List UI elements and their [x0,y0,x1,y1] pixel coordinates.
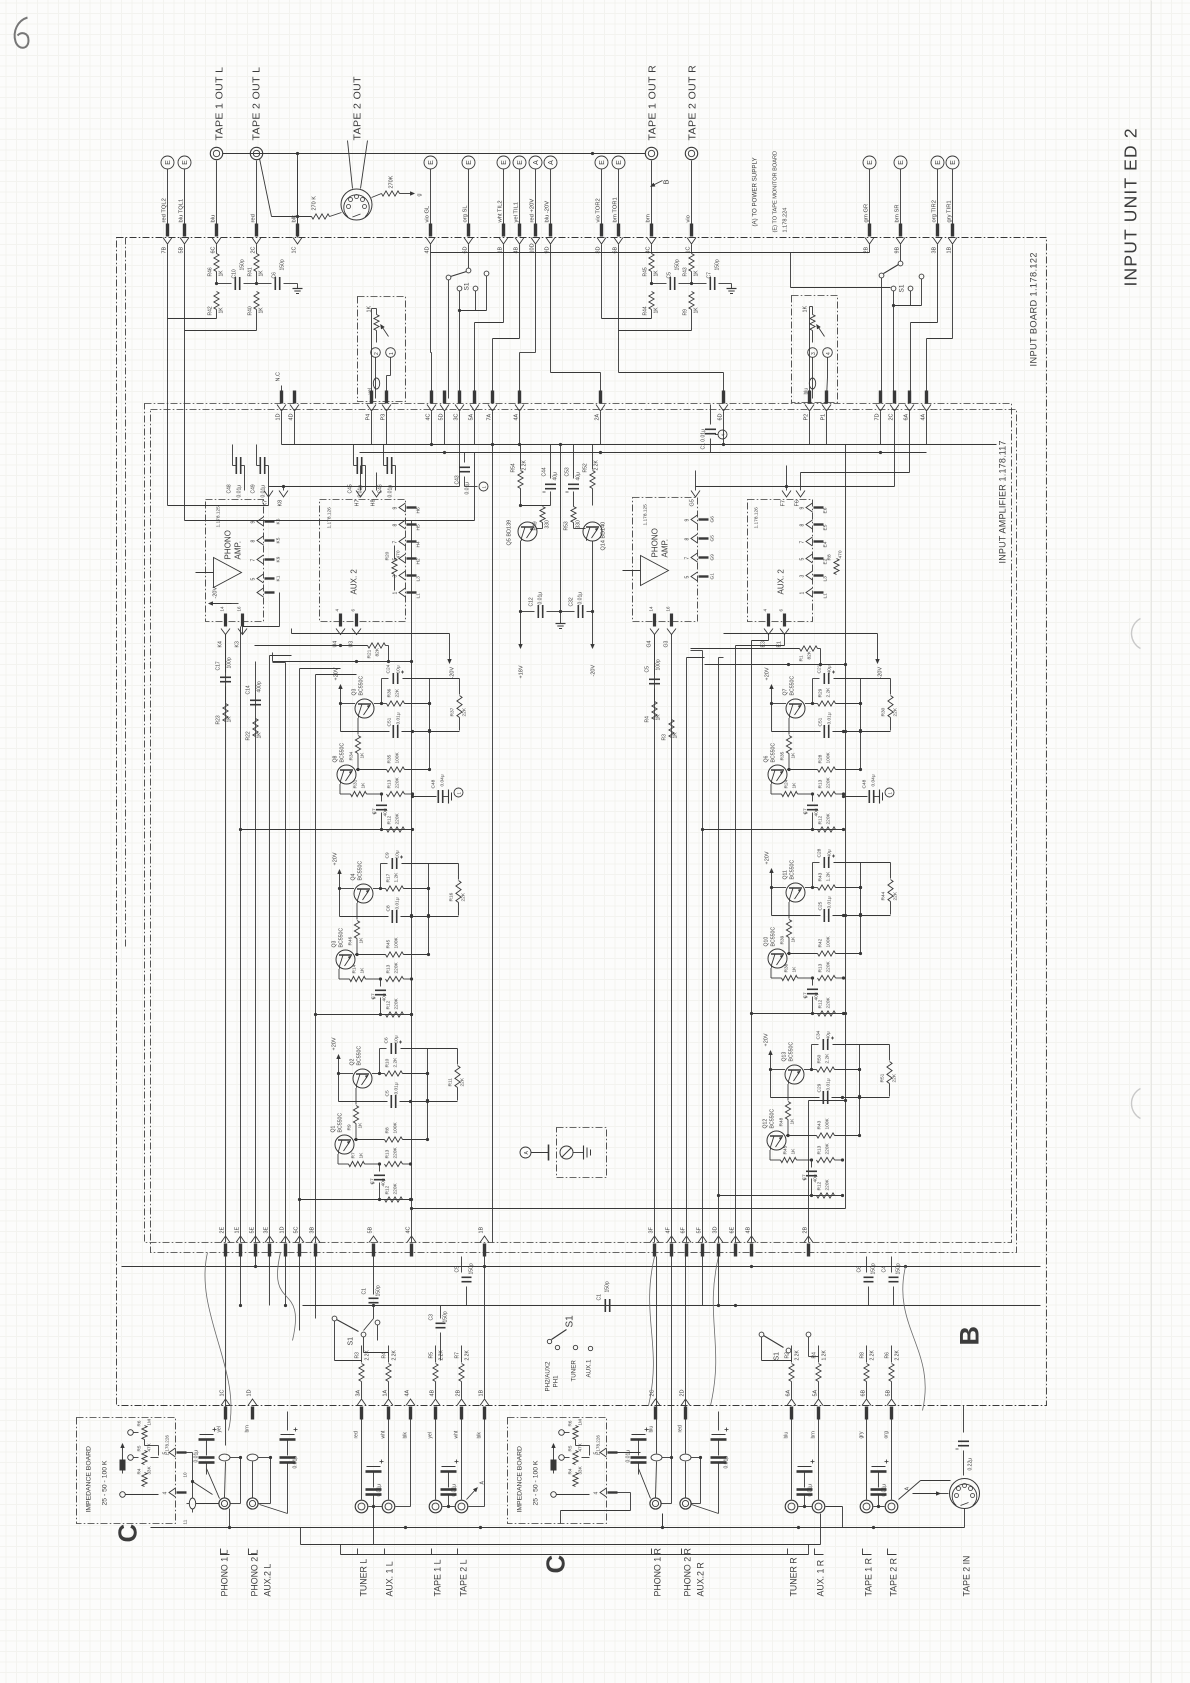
wire 7B left leg [168,319,269,506]
svg-text:org: org [884,1431,890,1438]
svg-text:1: 1 [800,592,806,595]
svg-text:7: 7 [251,559,257,562]
svg-text:red: red [251,214,257,222]
wire mid bus y645 right [691,646,821,665]
pin 1D amplifier bottom edge [280,1226,291,1256]
svg-text:red +20V: red +20V [530,199,536,223]
svg-text:B: B [955,1326,985,1346]
svg-text:R11: R11 [448,1078,454,1087]
wire 459 down [459,311,461,399]
svg-text:vio: vio [686,215,692,222]
svg-text:47K: 47K [578,1442,583,1451]
svg-text:10μ: 10μ [396,665,402,673]
capacitor C1 0.01u right [701,405,728,453]
resistor R49 330 [519,504,551,531]
svg-text:1E: 1E [235,1226,241,1233]
svg-text:C1 0.01μ: C1 0.01μ [701,429,707,450]
svg-text:BC550C: BC550C [771,927,777,947]
wire right channel bus [844,445,847,1209]
svg-text:3C: 3C [454,413,460,420]
op-amp U1 PHONO AMP left [196,500,282,622]
jack TAPE 2 L [454,1412,468,1513]
label TUNER R [789,1557,799,1596]
svg-text:C14: C14 [246,685,252,694]
power +18V arrow [519,612,525,679]
wire phono L sleeve [230,1458,271,1528]
svg-text:33K: 33K [147,1465,152,1474]
wire vio [691,161,693,224]
wires impedance left [183,1453,219,1525]
svg-text:C17: C17 [216,661,222,670]
svg-text:3B: 3B [310,1226,316,1233]
svg-text:brn SR: brn SR [895,204,901,222]
svg-text:AUX.1: AUX.1 [586,1359,593,1377]
svg-text:R3: R3 [355,1352,361,1359]
label grn GR [864,204,870,223]
svg-text:org TIR2: org TIR2 [932,200,938,222]
svg-text:yel TIL1: yel TIL1 [514,202,520,223]
svg-text:TAPE 2 R: TAPE 2 R [889,1558,899,1596]
svg-text:R5: R5 [137,1445,142,1451]
wire drop x535 [520,245,536,399]
svg-text:150p: 150p [896,1263,902,1274]
svg-text:1K: 1K [361,782,367,789]
svg-text:6F: 6F [681,1226,687,1233]
terminal TAPE 1 OUT R [645,147,657,159]
svg-text:L3: L3 [823,576,829,582]
svg-text:+20V: +20V [765,851,771,864]
wire mid bus y645 left [255,643,389,662]
switch S1 top right [791,245,924,399]
svg-text:vio GL: vio GL [425,205,431,223]
wire blk [297,161,299,224]
terminal (E) x=184 [178,156,191,169]
wire long y1305 [303,1304,1041,1307]
svg-text:7B: 7B [162,246,168,253]
label C mid bold [541,1555,571,1574]
svg-text:PHONO 1 L: PHONO 1 L [220,1549,230,1596]
oval red phono2R [678,1257,703,1461]
svg-text:40μ: 40μ [827,665,833,673]
label -20V left [209,587,239,606]
wire drop x519 [493,245,520,399]
ground chassis box [557,1128,607,1178]
svg-text:BC550C: BC550C [357,1046,363,1066]
svg-text:BC550C: BC550C [790,676,796,696]
svg-text:270 K: 270 K [312,196,318,211]
svg-text:C32: C32 [569,597,575,606]
pin P1 amplifier top edge [821,391,832,421]
wire drop x550 [551,245,601,399]
svg-text:TUNER: TUNER [571,1360,578,1382]
svg-text:40μ: 40μ [813,1174,819,1182]
capacitor 0.01u tunerR [797,1460,815,1509]
svg-text:1D: 1D [247,1389,253,1396]
pin 5A board bottom edge [813,1389,824,1419]
svg-text:0.01μ: 0.01μ [465,482,471,495]
pin 5B top edge [179,224,190,254]
svg-text:5: 5 [800,558,806,561]
svg-text:5: 5 [251,578,257,581]
pin 2A amplifier top edge [595,391,606,421]
svg-text:C46: C46 [378,484,384,493]
svg-text:C7: C7 [803,992,809,998]
svg-text:BC550C: BC550C [339,928,345,948]
svg-text:3B: 3B [932,246,938,253]
svg-text:220K: 220K [395,812,401,824]
capacitor C46 0.01u [378,445,396,498]
label TAPE 1 OUT L [214,67,226,141]
svg-text:R9: R9 [347,1124,353,1130]
svg-text:1.178.224: 1.178.224 [783,208,789,233]
label blu TQL1 [179,199,185,223]
svg-text:G4: G4 [647,640,653,647]
terminal TAPE 2 OUT L [250,147,262,159]
svg-text:R6: R6 [885,1352,891,1359]
svg-text:4C: 4C [406,1226,412,1233]
pin 1C top edge [686,224,697,254]
capacitor 0.01u tapeR [871,1460,889,1509]
svg-text:1K: 1K [360,967,366,974]
svg-text:R54: R54 [511,463,517,472]
capacitor C10 150p [215,259,258,290]
frame INPUT BOARD outer dash-dot [117,238,1047,1406]
svg-text:0.01μ: 0.01μ [538,592,544,605]
svg-text:R53: R53 [564,521,570,530]
svg-text:R38: R38 [784,963,790,972]
svg-text:2C: 2C [251,246,257,253]
jack PHONO 1 L [219,1462,230,1510]
svg-text:1K: 1K [673,732,679,739]
svg-text:R51: R51 [880,1073,886,1082]
lamp (1) left [386,348,396,399]
label red [251,214,257,222]
switch S1 rotary labels [545,1315,593,1392]
wire brn TOR1 [618,170,620,224]
svg-text:0.01μ: 0.01μ [237,485,243,498]
svg-text:R13: R13 [385,1149,391,1158]
wire center rails top [492,445,494,1243]
svg-text:brn TOR1: brn TOR1 [613,197,619,222]
svg-text:E3: E3 [761,641,767,647]
svg-text:R37: R37 [450,707,456,716]
svg-text:H7: H7 [355,499,361,506]
pin 4A amplifier top edge [514,391,525,421]
svg-text:1K: 1K [259,307,265,314]
svg-text:PHONO: PHONO [224,530,233,559]
svg-text:2.2K: 2.2K [393,1057,399,1068]
label TAPE 2 R [889,1558,899,1596]
oval yel left [368,309,380,399]
pin 5D amplifier top edge [439,391,450,421]
svg-text:1M: 1M [578,1419,583,1426]
ground chassis symbol [549,1145,591,1161]
svg-text:E: E [165,160,172,165]
svg-text:L3: L3 [416,576,422,582]
svg-text:1K: 1K [790,1118,796,1125]
capacitor C5 150p [650,259,693,290]
capacitor C6 150p bottom right [857,1257,877,1306]
svg-text:+18V: +18V [519,665,525,678]
svg-text:100K: 100K [393,1121,399,1133]
svg-text:2.2K: 2.2K [365,1350,371,1361]
svg-text:5: 5 [594,1452,600,1455]
svg-text:2A: 2A [595,413,601,420]
capacitor C7 150p [692,259,737,293]
svg-text:150p: 150p [605,1281,611,1292]
svg-text:-20V: -20V [450,667,456,679]
pin 4D amplifier top edge [289,391,300,421]
pin 4C amplifier bottom edge [406,1226,417,1256]
svg-text:C6: C6 [857,1266,863,1273]
svg-text:C: C [541,1555,571,1574]
label B arrow [651,179,671,186]
svg-text:R24: R24 [784,779,790,788]
oval blu phono1R [651,1257,673,1461]
svg-text:BC550C: BC550C [789,1042,795,1062]
scanner edge line [1151,1,1153,1683]
svg-text:0.22μ: 0.22μ [968,1458,974,1471]
svg-text:R29: R29 [818,688,824,697]
svg-text:22K: 22K [893,891,899,900]
chassis hooks under jacks [221,1549,897,1555]
svg-text:9: 9 [685,519,691,522]
svg-text:C9: C9 [385,852,391,858]
svg-text:R20: R20 [385,551,391,560]
svg-text:P1: P1 [821,414,827,421]
capacitor C17 100p left [216,635,233,682]
svg-text:TAPE 1 R: TAPE 1 R [864,1558,874,1596]
pin 1B top edge [947,224,958,254]
resistor R4 2.2K bottom [382,1346,398,1399]
wire blu TQL1 [184,170,186,224]
svg-text:BC550C: BC550C [790,860,796,880]
capacitor 0.01u phono1L [194,1428,220,1499]
label wht TIL2 [498,200,504,223]
svg-text:R3: R3 [662,734,668,741]
wire mid bus y633 left [292,629,450,634]
wire y520 bus [258,453,475,521]
svg-text:vio TOR2: vio TOR2 [596,198,602,222]
svg-text:4A: 4A [921,413,927,420]
wire E3 link [736,635,785,646]
pin 2C top edge [251,224,262,254]
svg-text:1K: 1K [360,752,366,759]
pin U4 below aux2 left [333,609,346,648]
pin 4C top edge [646,224,657,254]
pin 4F amplifier bottom edge [666,1226,677,1256]
svg-text:C10: C10 [232,269,238,278]
pin 7A amplifier top edge [487,391,498,421]
svg-text:470: 470 [838,550,844,558]
svg-text:E: E [501,160,508,165]
svg-text:0.01μ: 0.01μ [626,1450,632,1463]
svg-text:blk: blk [292,215,298,223]
svg-text:TUNER L: TUNER L [359,1559,369,1597]
wire drop x503 [475,245,504,399]
svg-text:N.C: N.C [276,372,282,382]
svg-text:R31: R31 [353,779,359,788]
capacitor C44 40u [521,445,559,506]
wire 6B down [619,245,692,331]
svg-text:40μ: 40μ [827,849,833,857]
svg-text:2.2K: 2.2K [392,1350,398,1361]
svg-text:2.2K: 2.2K [826,687,832,698]
label AUX. 1 L [385,1561,395,1596]
svg-text:R30: R30 [881,707,887,716]
svg-text:-20V: -20V [213,587,219,599]
svg-text:AUX. 1 R: AUX. 1 R [816,1560,826,1597]
svg-text:TAPE 2 IN: TAPE 2 IN [962,1556,972,1597]
svg-text:3F: 3F [649,1226,655,1233]
svg-text:TUNER R: TUNER R [789,1557,799,1596]
jack AUX 1 L [381,1412,395,1513]
svg-text:40μ: 40μ [382,993,388,1001]
svg-text:5A: 5A [469,413,475,420]
resistor R5 2.2K bottom [429,1346,445,1399]
svg-text:1K: 1K [654,307,660,314]
svg-text:E: E [867,160,874,165]
frame INPUT AMPLIFIER dash-dot double [145,404,1017,1253]
pin G3 below phono right [664,606,677,648]
svg-text:10: 10 [183,1472,188,1478]
svg-text:AMP.: AMP. [661,539,670,558]
label PHONO 2 L [250,1549,260,1596]
svg-text:Q12: Q12 [763,1119,769,1129]
wire 8D down [602,245,652,319]
op-amp U2 PHONO AMP right [623,498,716,622]
svg-text:2B: 2B [803,1226,809,1233]
svg-text:40μ: 40μ [814,992,820,1000]
svg-text:7A: 7A [487,413,493,420]
wire org SL [468,170,470,224]
svg-text:150p: 150p [871,1263,877,1274]
pin 1C board bottom edge [220,1389,231,1419]
wire 1B blk drop [484,1257,486,1399]
svg-text:R28: R28 [818,754,824,763]
svg-text:Q4: Q4 [351,873,357,880]
svg-text:220K: 220K [395,776,401,788]
svg-text:G1: G1 [710,573,716,580]
wire red +20V [535,170,537,224]
label TAPE 2 OUT L [251,67,263,141]
svg-text:R4: R4 [812,1352,818,1359]
svg-text:220K: 220K [394,961,400,973]
svg-text:AUX.2 R: AUX.2 R [696,1562,706,1596]
svg-text:R1: R1 [799,655,805,661]
punch hole upper [1131,619,1140,649]
svg-text:E6: E6 [823,507,829,513]
svg-text:R50: R50 [817,1054,823,1063]
pin 6A amplifier top edge [904,391,915,421]
svg-text:R21: R21 [367,649,373,658]
svg-text:7: 7 [685,557,691,560]
switch S1 top left [446,245,489,399]
terminal (E) x=430 [424,156,437,169]
label (A) TO POWER SUPPLY [752,157,759,226]
svg-text:AUX. 2: AUX. 2 [350,569,359,595]
label blk [292,215,298,223]
svg-text:33K: 33K [578,1465,583,1474]
cable slack curve [903,1267,925,1411]
svg-text:1B: 1B [947,246,953,253]
svg-text:R48: R48 [779,1117,785,1126]
wire bottom link y1554 [341,1545,809,1555]
svg-text:TAPE 2 L: TAPE 2 L [459,1559,469,1596]
svg-text:G6: G6 [710,516,716,523]
svg-text:Q2: Q2 [350,1058,356,1065]
svg-text:-20V: -20V [591,665,597,677]
svg-text:R13: R13 [387,779,393,788]
svg-text:22K: 22K [460,1077,466,1086]
svg-text:1K: 1K [359,1152,365,1159]
svg-text:Q14 BD140: Q14 BD140 [601,522,607,551]
resistor R4 1K right [645,689,662,723]
svg-text:AUX. 2: AUX. 2 [777,569,786,595]
svg-text:25 - 50 - 100 K: 25 - 50 - 100 K [533,1460,540,1505]
svg-text:0.01μ: 0.01μ [377,1484,383,1497]
svg-text:1.2K: 1.2K [826,871,832,882]
punch hole lower [1131,1089,1140,1119]
svg-text:K3: K3 [235,641,241,647]
label yel TIL1 [514,202,520,223]
svg-text:40μ: 40μ [826,1031,832,1039]
pin 10D top edge [530,224,541,254]
power -20V arrow center [591,612,597,677]
jack PHONO 2 R [680,1462,691,1510]
svg-text:R10: R10 [385,1058,391,1067]
svg-text:gry: gry [859,1431,865,1438]
pin E3 below aux2 right [761,609,774,648]
pin 6D amplifier top edge [718,391,729,421]
svg-text:220K: 220K [826,812,832,824]
svg-text:AMP.: AMP. [234,541,243,560]
svg-text:1A: 1A [383,1389,389,1396]
wire drop x937 [911,245,938,399]
svg-text:wht: wht [381,1430,387,1438]
pin 2B top edge [864,224,875,254]
jack TAPE 1 R [859,1412,873,1513]
svg-text:0.01μ: 0.01μ [724,1456,730,1469]
svg-text:S1: S1 [899,284,906,292]
svg-text:R43: R43 [817,1120,823,1129]
capacitor C3 150p bottom [429,1306,449,1361]
svg-text:4A: 4A [514,413,520,420]
svg-text:1B: 1B [479,1389,485,1396]
svg-text:47K: 47K [147,1442,152,1451]
svg-text:C1: C1 [597,1294,603,1301]
svg-text:E: E [935,160,942,165]
svg-text:14: 14 [649,606,654,612]
pin 6F amplifier bottom edge [681,1226,692,1256]
svg-text:+20V: +20V [332,1037,338,1050]
svg-text:C7: C7 [370,1178,376,1184]
svg-text:6D: 6D [718,413,724,420]
svg-text:Q6: Q6 [764,755,770,762]
svg-text:C5: C5 [385,1090,391,1096]
capacitor C48 0.01u [227,445,245,498]
svg-text:C5: C5 [667,272,673,279]
svg-text:g: g [417,193,423,196]
terminal (E) x=503 [497,156,510,169]
svg-text:2.2K: 2.2K [795,1350,801,1361]
svg-text:1.178.126: 1.178.126 [327,507,333,529]
svg-text:100K: 100K [825,1117,831,1129]
svg-text:5A: 5A [813,1389,819,1396]
svg-text:0.01μ: 0.01μ [882,1484,888,1497]
svg-text:150p: 150p [443,1311,449,1322]
pin G4 below phono right [647,606,660,648]
